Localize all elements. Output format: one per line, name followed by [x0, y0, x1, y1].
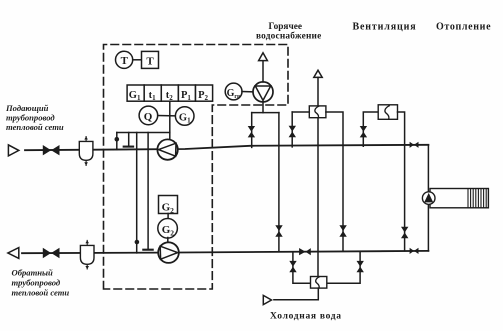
wire: supply pipe: [25, 145, 428, 150]
wire: G2 box to G2 circle: [167, 214, 169, 219]
wire: impulse line down to return pressure tap: [135, 133, 140, 253]
node: hot water outlet arrow up: [314, 70, 322, 77]
instrument: flow meter G1: [175, 107, 194, 126]
svg-text:тепловой сети: тепловой сети: [12, 288, 70, 298]
instrument: heat computer cell P1: [178, 85, 195, 102]
wire: HW regulator riser (arrow to mixer): [317, 77, 319, 276]
instrument: heat computer cell t2: [161, 85, 178, 102]
valve V10 (return from heating): [410, 248, 419, 254]
svg-text:Горячее: Горячее: [269, 22, 302, 32]
heating radiator (calorifer): [430, 189, 488, 208]
node: supply inlet arrow: [8, 145, 18, 156]
instrument: temperature transmitter T (square): [142, 51, 159, 68]
valve V11 (check valve on return): [299, 248, 311, 255]
label: Обратный трубопровод тепловой сети: [12, 268, 70, 298]
valve V9 (supply to heating): [410, 142, 419, 148]
pump H2 (return line pump): [158, 242, 179, 263]
node: cold water arrow: [263, 295, 271, 304]
node: return outlet arrow: [8, 248, 19, 259]
instrument: heat computer cell G1: [127, 85, 144, 102]
label: Подающий трубопровод тепловой сети: [5, 103, 64, 132]
wire: G2 to return pump: [167, 238, 169, 243]
label: Холодная вода: [270, 312, 342, 322]
wire: t2 impulse line to supply pump: [169, 101, 171, 140]
sensor: thermowell (supply): [124, 133, 133, 147]
valve V7 (ventilation riser): [360, 126, 367, 137]
sensor: pressure tap with dot (supply): [115, 133, 120, 150]
valve V3 (HW intake): [248, 126, 255, 137]
wire: U2 right link and drop to return: [398, 112, 405, 251]
wire: cold water inlet: [274, 288, 318, 300]
valve V2 (return outlet): [43, 248, 60, 258]
wire: HW pump vent riser: [262, 61, 264, 82]
valve V12 (mixer left drop): [289, 261, 296, 272]
wire: mixer right drop from return: [327, 251, 360, 283]
pump H1 (supply line pump): [157, 139, 177, 159]
wire: mixer left drop from return: [293, 252, 311, 284]
wire: HW return drop to return pipe: [278, 113, 280, 252]
wire: HW header: [252, 112, 279, 114]
instrument: heat computer cell t1: [144, 85, 161, 102]
valve V1 (supply inlet): [43, 145, 60, 155]
node: vent arrow up: [259, 53, 268, 61]
svg-text:Вентиляция: Вентиляция: [353, 22, 417, 33]
wire: heating riser: [427, 145, 429, 251]
wire: return pipe: [22, 251, 428, 253]
wire: U1 right link and drop to return: [326, 112, 343, 251]
pump H4 (heating circulation pump): [422, 192, 435, 205]
instrument: hot-water flow meter Gгв: [225, 83, 242, 100]
wire: U1 supply riser: [291, 112, 293, 147]
pump H3 (hot water circulation pump): [253, 82, 273, 102]
svg-text:Q: Q: [144, 111, 153, 123]
wire: impulse line down to return thermowell: [143, 133, 152, 250]
svg-text:трубопровод: трубопровод: [12, 278, 61, 288]
svg-text:тепловой сети: тепловой сети: [6, 122, 64, 132]
wire: Gгв to HW pump: [242, 91, 253, 93]
wire: regulator U1 left link: [292, 111, 309, 113]
svg-text:Подающий: Подающий: [5, 103, 49, 113]
wire: HW intake riser: [251, 113, 253, 148]
filter F1 (supply strainer): [79, 136, 93, 165]
instrument: temperature sensor T (circle): [116, 51, 133, 68]
regulator U1 (hot water temperature regulator): [309, 106, 326, 118]
valve V4 (HW return drop): [275, 225, 282, 236]
valve V13 (mixer right drop): [357, 261, 364, 272]
label: Горячее водоснабжение: [256, 22, 321, 42]
wire: T link: [133, 59, 142, 61]
wire: sensor impulse header on supply: [117, 132, 170, 134]
instrument: heat computer cell P2: [196, 85, 213, 102]
valve V8 (U2 return drop): [401, 227, 408, 238]
wire: HW pump down leg: [262, 102, 264, 113]
svg-text:T: T: [146, 55, 154, 67]
label: Отопление: [436, 22, 491, 33]
instrument: flow meter G2 (circle): [158, 219, 178, 239]
svg-text:Отопление: Отопление: [436, 22, 491, 33]
svg-text:Обратный: Обратный: [12, 268, 54, 278]
instrument: flow transmitter G2 (square): [159, 196, 178, 215]
valve V5 (U1 supply riser): [289, 126, 296, 137]
svg-text:трубопровод: трубопровод: [6, 113, 55, 123]
label: Вентиляция: [353, 22, 417, 33]
filter F2 (return strainer): [80, 240, 94, 269]
wire: ventilation supply riser: [363, 112, 378, 146]
wire: Q to G1 link: [158, 115, 176, 117]
svg-text:водоснабжение: водоснабжение: [256, 31, 321, 42]
instrument: heat meter Q: [139, 106, 158, 125]
valve V6 (U1 return drop): [339, 225, 346, 236]
regulator U2 (ventilation temperature regulator): [378, 105, 397, 120]
svg-text:Холодная вода: Холодная вода: [270, 312, 342, 322]
dashed meter-cabinet boundary: [104, 45, 289, 290]
svg-text:T: T: [121, 55, 129, 67]
regulator U3 (cold water mixer): [311, 277, 327, 289]
